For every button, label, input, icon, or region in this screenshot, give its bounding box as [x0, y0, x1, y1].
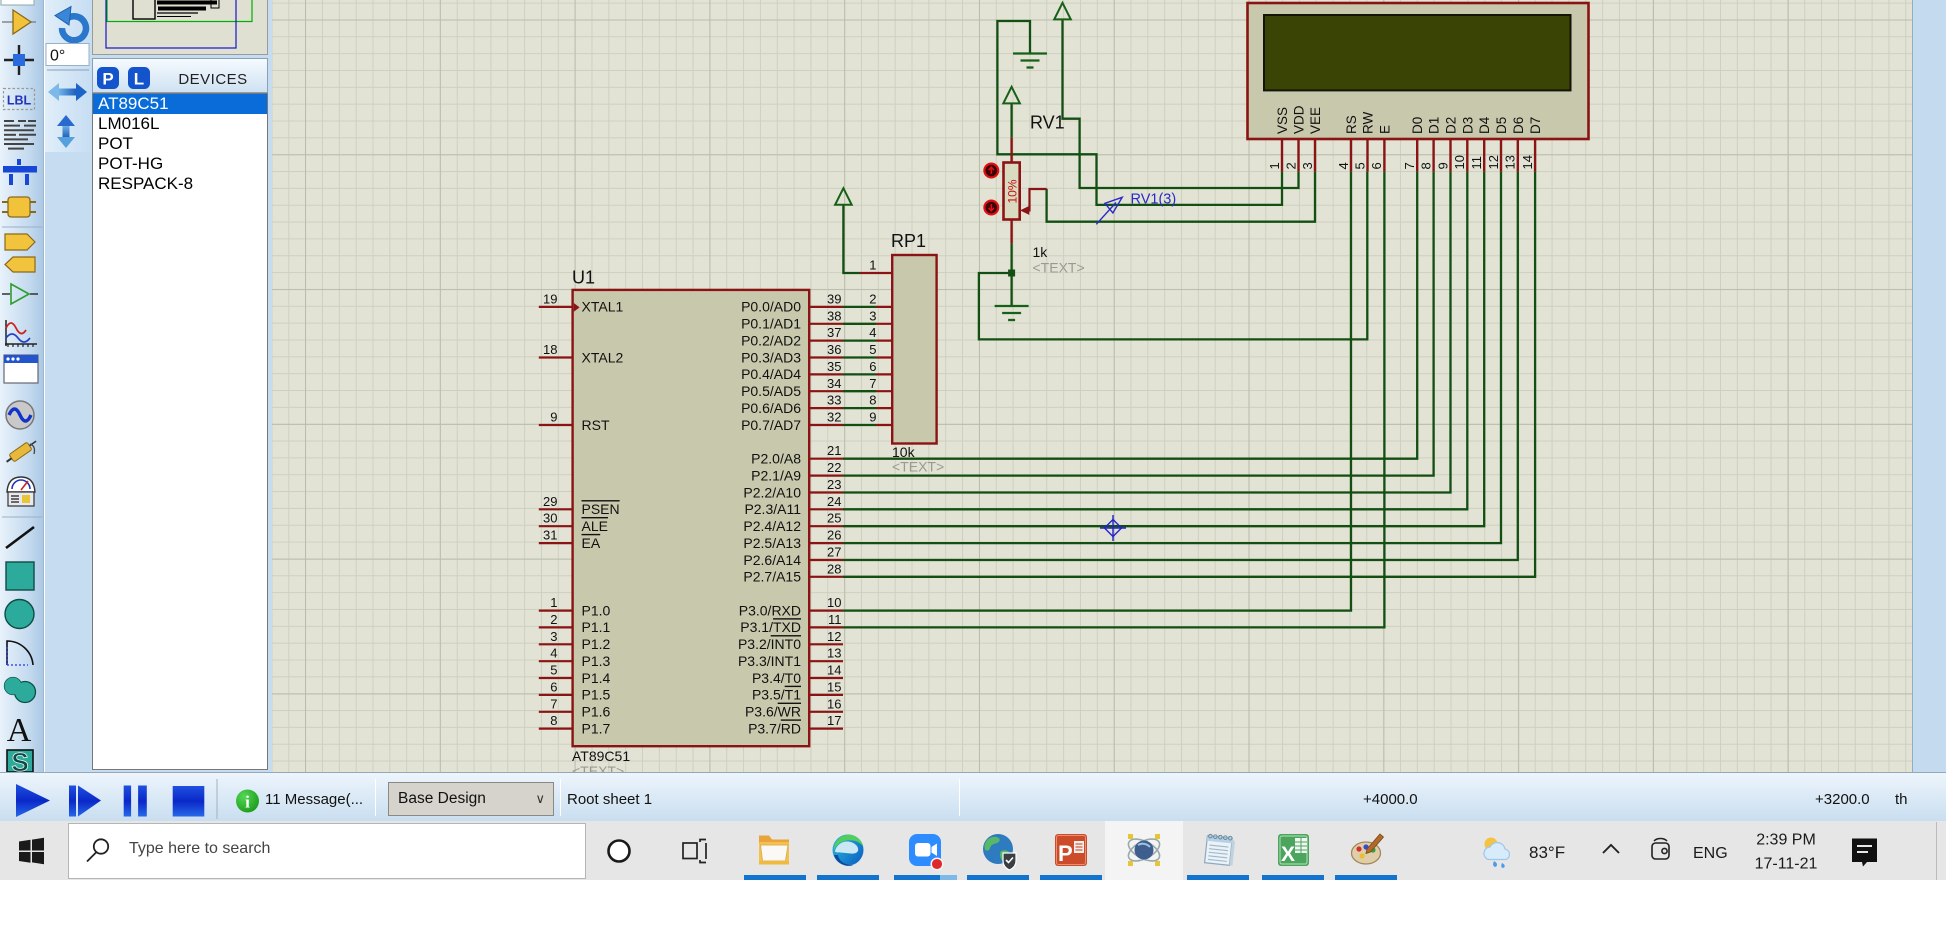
L button (library)	[128, 67, 150, 89]
svg-text:30: 30	[543, 511, 557, 526]
svg-text:12: 12	[827, 629, 841, 644]
toolbar: terminals mode icon	[5, 234, 35, 250]
svg-text:36: 36	[827, 342, 841, 357]
svg-text:P3.1/TXD: P3.1/TXD	[740, 619, 801, 635]
svg-text:XTAL2: XTAL2	[582, 349, 624, 365]
svg-text:P3.4/T0: P3.4/T0	[752, 670, 801, 686]
svg-text:37: 37	[827, 325, 841, 340]
svg-text:6: 6	[869, 359, 876, 374]
pin 28 stub	[809, 576, 843, 578]
pin 1 P1.0 stub	[539, 609, 573, 611]
message info icon	[236, 790, 259, 813]
wire VEE from pot wiper	[1047, 172, 1315, 222]
svg-text:29: 29	[543, 494, 557, 509]
svg-text:33: 33	[827, 393, 841, 408]
svg-text:24: 24	[827, 494, 841, 509]
svg-text:A: A	[7, 712, 32, 749]
svg-text:14: 14	[827, 663, 841, 678]
pin 13 LCD stub	[1517, 139, 1519, 172]
svg-text:P2.3/A11: P2.3/A11	[744, 501, 801, 517]
preview mini MCU	[133, 0, 155, 19]
status bar	[0, 772, 1946, 821]
svg-text:1k: 1k	[1033, 244, 1049, 260]
svg-text:21: 21	[827, 443, 841, 458]
svg-text:RV1(3): RV1(3)	[1131, 192, 1177, 208]
pin 6 LCD stub	[1383, 139, 1385, 172]
RV1 decrement button	[984, 201, 998, 215]
pin 8 RP1 stub	[876, 407, 892, 409]
svg-text:P1.7: P1.7	[582, 720, 611, 736]
svg-text:16: 16	[827, 696, 841, 711]
svg-text:P0.6/AD6: P0.6/AD6	[741, 400, 801, 416]
svg-text:U1: U1	[572, 268, 595, 288]
pin 32 stub	[809, 424, 843, 426]
pin 11 LCD stub	[1483, 139, 1485, 172]
svg-text:VDD: VDD	[1292, 105, 1307, 134]
pin 14 stub	[809, 677, 843, 679]
power terminal +5V (RP1)	[835, 188, 852, 205]
svg-text:17: 17	[827, 713, 841, 728]
pin 3 LCD stub	[1314, 139, 1316, 172]
svg-text:P2.0/A8: P2.0/A8	[751, 451, 801, 467]
pin 30 ALE stub	[539, 525, 573, 527]
pin 2 P1.1 stub	[539, 626, 573, 628]
svg-text:9: 9	[869, 410, 876, 425]
svg-text:26: 26	[827, 528, 841, 543]
svg-text:2: 2	[1283, 162, 1298, 169]
pin 10 stub	[809, 609, 843, 611]
pin 15 stub	[809, 694, 843, 696]
pin 19 XTAL1 stub	[539, 306, 573, 308]
toolbar: component mode icon	[2, 10, 36, 34]
toolbar: virtual instruments icon	[7, 477, 35, 506]
horizontal mirror icon	[48, 83, 87, 101]
wire P2.2 to LCD D2	[843, 172, 1451, 493]
pin 18 XTAL2 stub	[539, 356, 573, 358]
rotation angle box 0 deg	[46, 44, 89, 66]
show desktop divider	[1936, 822, 1938, 880]
svg-text:P3.2/INT0: P3.2/INT0	[738, 636, 801, 652]
pin 9 RP1 stub	[876, 424, 892, 426]
zoom icon	[909, 834, 943, 870]
svg-text:D0: D0	[1410, 117, 1425, 134]
simulation stop button	[173, 786, 205, 817]
svg-text:19: 19	[543, 291, 557, 306]
IC U1 body: AT89C51 microcontroller	[573, 290, 810, 746]
svg-text:LBL: LBL	[7, 94, 32, 108]
svg-text:P2.2/A10: P2.2/A10	[743, 484, 801, 500]
svg-text:12: 12	[1486, 155, 1501, 169]
svg-text:2: 2	[550, 612, 557, 627]
svg-text:5: 5	[1352, 162, 1367, 169]
weather icon	[1484, 838, 1509, 868]
svg-text:13: 13	[1503, 155, 1518, 169]
svg-text:83°F: 83°F	[1529, 843, 1565, 862]
toolbar: text script mode icon	[4, 121, 36, 149]
vertical mirror icon	[57, 115, 75, 148]
pin 4 LCD stub	[1350, 139, 1352, 172]
svg-text:P0.3/AD3: P0.3/AD3	[741, 349, 801, 365]
pin 9 RST stub	[539, 424, 573, 426]
pin 1 RP1 stub	[860, 272, 892, 274]
svg-text:RW: RW	[1361, 111, 1376, 134]
toolbar: voltage probe icon	[4, 437, 39, 465]
pin 12 LCD stub	[1500, 139, 1502, 172]
svg-text:4: 4	[1336, 162, 1351, 169]
svg-text:D3: D3	[1460, 117, 1475, 134]
pin 2 RP1 stub	[876, 306, 892, 308]
resistor RV1 potentiometer body	[1004, 163, 1020, 220]
svg-text:P3.5/T1: P3.5/T1	[752, 687, 801, 703]
svg-text:S: S	[11, 747, 28, 772]
svg-text:9: 9	[550, 410, 557, 425]
pin 5 LCD stub	[1366, 139, 1368, 172]
toolbar: tape recorder / waveform icon	[5, 320, 37, 347]
wire P2.6 to LCD D6	[843, 172, 1518, 560]
search box magnifier	[94, 839, 108, 853]
svg-text:11: 11	[1469, 156, 1484, 170]
svg-text:2: 2	[869, 291, 876, 306]
schematic canvas grid	[271, 0, 1912, 772]
svg-text:P1.3: P1.3	[582, 653, 611, 669]
wire P0.2 to RP1 pin 4	[843, 339, 876, 341]
svg-text:2:39 PM: 2:39 PM	[1756, 832, 1816, 849]
wire P0.4 to RP1 pin 6	[843, 373, 876, 375]
pin 39 stub	[809, 306, 843, 308]
toolbar: generator mode icon	[6, 401, 34, 429]
svg-text:P1.5: P1.5	[582, 687, 611, 703]
toolbar: device pins mode icon	[5, 257, 35, 272]
svg-text:P1.1: P1.1	[582, 619, 611, 635]
pin 36 stub	[809, 356, 843, 358]
powerpoint icon	[1055, 834, 1087, 866]
toolbar: 2D symbol icon	[7, 747, 33, 777]
pin 24 stub	[809, 508, 843, 510]
svg-text:DEVICES: DEVICES	[178, 71, 247, 88]
svg-text:7: 7	[869, 376, 876, 391]
svg-text:EA: EA	[582, 535, 601, 551]
svg-text:P1.6: P1.6	[582, 704, 611, 720]
file explorer icon	[759, 836, 789, 865]
pin 13 stub	[809, 660, 843, 662]
svg-text:i: i	[245, 793, 250, 812]
svg-text:ENG: ENG	[1693, 845, 1728, 862]
svg-text:P2.5/A13: P2.5/A13	[743, 535, 801, 551]
RV1 increment button	[984, 164, 998, 178]
pin 16 stub	[809, 711, 843, 713]
pin 10 LCD stub	[1466, 139, 1468, 172]
pin 7 LCD stub	[1416, 139, 1418, 172]
wire P2.4 to LCD D4	[843, 172, 1484, 527]
paint icon	[1352, 834, 1384, 864]
svg-text:10: 10	[1452, 155, 1467, 169]
pin 29 PSEN stub	[539, 508, 573, 510]
svg-text:1: 1	[550, 595, 557, 610]
svg-text:11: 11	[828, 612, 842, 627]
svg-text:P3.0/RXD: P3.0/RXD	[739, 602, 801, 618]
wire P2.3 to LCD D3	[843, 172, 1467, 510]
resistor pack RP1 body	[892, 255, 936, 444]
pin 3 P1.2 stub	[539, 643, 573, 645]
pin 4 P1.3 stub	[539, 660, 573, 662]
svg-text:D2: D2	[1444, 117, 1459, 134]
pin 26 stub	[809, 542, 843, 544]
meet now icon	[1652, 838, 1669, 859]
toolbar: popup window icon	[4, 355, 38, 383]
ground (top)	[1013, 52, 1047, 54]
svg-text:35: 35	[827, 359, 841, 374]
left toolbar	[0, 0, 44, 772]
pin RV1 wiper	[1025, 189, 1047, 210]
pin 35 stub	[809, 373, 843, 375]
wire pot top to power	[1010, 104, 1012, 138]
side panel: preview + devices	[92, 0, 272, 772]
pin 12 stub	[809, 643, 843, 645]
svg-text:8: 8	[550, 713, 557, 728]
svg-text:0°: 0°	[50, 48, 65, 65]
svg-text:3: 3	[550, 629, 557, 644]
wire VSS ground rail	[997, 21, 1282, 205]
pin 14 LCD stub	[1534, 139, 1536, 172]
svg-text:P2.4/A12: P2.4/A12	[743, 518, 801, 534]
P button (pick devices)	[97, 67, 119, 89]
svg-text:38: 38	[827, 308, 841, 323]
svg-text:RS: RS	[1344, 115, 1359, 134]
svg-text:1: 1	[869, 258, 876, 273]
svg-text:P2.7/A15: P2.7/A15	[743, 569, 801, 585]
svg-text:ALE: ALE	[582, 518, 608, 534]
svg-text:3: 3	[1300, 162, 1315, 169]
svg-text:14: 14	[1520, 155, 1535, 169]
wire P0.5 to RP1 pin 7	[843, 390, 876, 392]
svg-text:9: 9	[1435, 162, 1450, 169]
pin RV1 bottom stub	[1010, 220, 1012, 244]
svg-text:28: 28	[827, 561, 841, 576]
task view button	[683, 840, 706, 863]
pin 8 P1.7 stub	[539, 727, 573, 729]
svg-text:13: 13	[827, 646, 841, 661]
svg-text:P3.7/RD: P3.7/RD	[748, 720, 801, 736]
toolbar: 2D line icon	[6, 527, 34, 548]
svg-text:RST: RST	[582, 417, 610, 433]
wire P0.6 to RP1 pin 8	[843, 407, 876, 409]
XTAL1 clock edge marker	[574, 303, 580, 312]
toolbar: subcircuit mode icon	[2, 197, 36, 217]
svg-text:P3.6/WR: P3.6/WR	[745, 704, 801, 720]
wire P2.1 to LCD D1	[843, 172, 1434, 476]
svg-text:RV1: RV1	[1030, 113, 1065, 133]
svg-text:10: 10	[827, 595, 841, 610]
svg-text:E: E	[1377, 125, 1392, 134]
svg-text:23: 23	[827, 477, 841, 492]
svg-text:P3.3/INT1: P3.3/INT1	[738, 653, 801, 669]
svg-text:X: X	[1281, 843, 1295, 866]
svg-text:P0.5/AD5: P0.5/AD5	[741, 383, 801, 399]
pin 6 RP1 stub	[876, 373, 892, 375]
svg-text:4: 4	[550, 646, 557, 661]
pin 25 stub	[809, 525, 843, 527]
svg-text:17-11-21: 17-11-21	[1755, 856, 1818, 873]
power terminal +5V (top)	[1054, 3, 1071, 20]
svg-text:XTAL1: XTAL1	[582, 299, 624, 315]
pin 23 stub	[809, 491, 843, 493]
pin 17 stub	[809, 727, 843, 729]
svg-text:L: L	[134, 70, 144, 89]
wire P0.3 to RP1 pin 5	[843, 356, 876, 358]
svg-text:VEE: VEE	[1308, 107, 1323, 134]
wire RP1 pin1 to power	[843, 205, 860, 273]
pin 38 stub	[809, 323, 843, 325]
pin 22 stub	[809, 475, 843, 477]
svg-text:PSEN: PSEN	[582, 501, 620, 517]
svg-text:22: 22	[827, 460, 841, 475]
toolbar: wire label mode icon LBL	[4, 89, 35, 110]
svg-text:31: 31	[543, 528, 557, 543]
wire P0.1 to RP1 pin 3	[843, 323, 876, 325]
wire pot bottom to ground	[1010, 243, 1012, 306]
pin 33 stub	[809, 407, 843, 409]
wire VDD power rail	[1063, 20, 1299, 189]
svg-text:<TEXT>: <TEXT>	[1033, 260, 1085, 276]
wire P3.1 to LCD E	[843, 172, 1384, 628]
svg-text:6: 6	[1369, 162, 1384, 169]
pin 6 P1.5 stub	[539, 694, 573, 696]
svg-text:P0.0/AD0: P0.0/AD0	[741, 299, 801, 315]
wire P2.0 to LCD D0	[843, 172, 1417, 459]
pin 37 stub	[809, 340, 843, 342]
svg-text:34: 34	[827, 376, 841, 391]
svg-text:P0.4/AD4: P0.4/AD4	[741, 366, 801, 382]
pin 9 LCD stub	[1449, 139, 1451, 172]
node RV1(3) wire label pointer	[1096, 203, 1116, 225]
wire P3.0 to LCD RS	[843, 172, 1351, 611]
junction pot-bottom ground node	[1008, 270, 1015, 277]
svg-text:P1.4: P1.4	[582, 670, 611, 686]
svg-text:7: 7	[1402, 162, 1417, 169]
preview mini LCD/wires	[157, 1, 217, 5]
pin 7 P1.6 stub	[539, 711, 573, 713]
preview viewport outline (blue)	[106, 0, 236, 48]
svg-text:D6: D6	[1511, 117, 1526, 134]
pin 31 EA stub	[539, 542, 573, 544]
wire P2.7 to LCD D7	[843, 172, 1535, 577]
svg-text:D7: D7	[1528, 117, 1543, 134]
svg-text:P1.0: P1.0	[582, 602, 611, 618]
cursor crosshair	[1100, 515, 1126, 541]
simulation play button	[16, 784, 50, 817]
svg-text:D5: D5	[1494, 117, 1509, 134]
svg-text:5: 5	[869, 342, 876, 357]
svg-text:P2.6/A14: P2.6/A14	[743, 552, 801, 568]
svg-text:AT89C51: AT89C51	[572, 748, 630, 764]
tray chevron	[1603, 845, 1619, 853]
pin 34 stub	[809, 390, 843, 392]
svg-text:10%: 10%	[1005, 179, 1019, 203]
svg-text:15: 15	[827, 679, 841, 694]
toolbar divider 2	[2, 516, 42, 518]
svg-text:<TEXT>: <TEXT>	[572, 763, 624, 772]
svg-text:VSS: VSS	[1275, 107, 1290, 134]
pin 2 LCD stub	[1297, 139, 1299, 172]
svg-text:18: 18	[543, 342, 557, 357]
svg-text:39: 39	[827, 291, 841, 306]
svg-text:32: 32	[827, 410, 841, 425]
notepad icon	[1205, 834, 1236, 866]
wire P0.0 to RP1 pin 2	[843, 306, 876, 308]
LCD1 LM016L body	[1248, 3, 1589, 139]
rotate anticlockwise icon	[55, 7, 86, 41]
toolbar: 2D arc icon	[7, 641, 33, 665]
pin 4 RP1 stub	[876, 340, 892, 342]
action center icon	[1852, 839, 1877, 867]
svg-text:P1.2: P1.2	[582, 636, 611, 652]
svg-text:3: 3	[869, 308, 876, 323]
toolbar: 2D circle icon	[5, 600, 34, 629]
svg-text:P0.2/AD2: P0.2/AD2	[741, 332, 801, 348]
globe vpn icon	[983, 834, 1016, 870]
svg-text:P: P	[102, 70, 113, 89]
toolbar: bus mode icon	[3, 159, 37, 185]
pin 27 stub	[809, 559, 843, 561]
svg-text:6: 6	[550, 679, 557, 694]
svg-text:8: 8	[1418, 162, 1433, 169]
excel icon	[1278, 834, 1309, 866]
pin 8 LCD stub	[1432, 139, 1434, 172]
toolbar: 2D closed path icon	[5, 678, 36, 703]
rotate column	[45, 0, 92, 772]
svg-text:4: 4	[869, 325, 876, 340]
svg-text:25: 25	[827, 511, 841, 526]
LCD screen	[1264, 15, 1571, 90]
wire RW ground branch	[979, 172, 1367, 340]
preview sheet outline (green)	[107, 0, 252, 22]
ground (pot bottom)	[995, 305, 1029, 307]
pin 11 stub	[809, 626, 843, 628]
simulation pause button	[124, 786, 131, 817]
power terminal +5V (pot)	[1003, 87, 1020, 104]
svg-text:RP1: RP1	[891, 231, 926, 251]
svg-text:<TEXT>: <TEXT>	[892, 459, 944, 475]
svg-text:P2.1/A9: P2.1/A9	[751, 467, 801, 483]
toolbar divider	[2, 226, 42, 228]
toolbar: graph mode icon	[2, 284, 38, 304]
svg-text:D4: D4	[1477, 116, 1492, 134]
pin 1 LCD stub	[1281, 139, 1283, 172]
windows start button	[19, 838, 44, 864]
svg-text:27: 27	[827, 545, 841, 560]
pin RV1 top stub	[1010, 138, 1012, 163]
taskbar active app slot	[1105, 821, 1183, 880]
toolbar: junction dot mode icon	[4, 45, 34, 75]
svg-text:D1: D1	[1427, 117, 1442, 134]
svg-text:1: 1	[1267, 162, 1282, 169]
wire P2.5 to LCD D5	[843, 172, 1501, 543]
cortana circle	[609, 841, 630, 862]
svg-text:7: 7	[550, 696, 557, 711]
svg-text:8: 8	[869, 393, 876, 408]
pin 5 RP1 stub	[876, 356, 892, 358]
svg-text:P: P	[1058, 841, 1073, 866]
svg-text:P0.1/AD1: P0.1/AD1	[741, 316, 801, 332]
pin 5 P1.4 stub	[539, 677, 573, 679]
svg-text:5: 5	[550, 663, 557, 678]
simulation step button	[69, 786, 76, 817]
toolbar: partial button top	[1, 0, 34, 5]
pin 21 stub	[809, 458, 843, 460]
wire P0.7 to RP1 pin 9	[843, 424, 876, 426]
toolbar: 2D box icon	[6, 562, 34, 590]
svg-text:P0.7/AD7: P0.7/AD7	[741, 417, 801, 433]
